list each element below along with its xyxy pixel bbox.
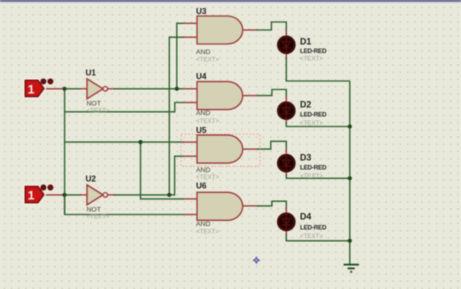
svg-text:<TEXT>: <TEXT> <box>87 214 110 221</box>
wire: branch to U5 upper input <box>65 141 198 143</box>
wire: D2 cathode to bus <box>286 119 350 127</box>
wire: branch down to U6 upper input <box>141 142 198 199</box>
ground <box>344 265 359 272</box>
and gate U3 <box>196 7 243 64</box>
svg-text:<TEXT>: <TEXT> <box>196 118 219 125</box>
junction node: D2 on bus <box>348 124 352 128</box>
wire: U6 output to D4 anode <box>242 201 286 214</box>
selection box around U5 (red dashed) <box>181 134 260 166</box>
wire: net B elbow to U6 lower input <box>65 195 198 215</box>
wire: D1 cathode down and right to ground bus <box>286 53 350 81</box>
junction node: U1 output / U3 branch <box>175 87 179 91</box>
svg-text:<TEXT>: <TEXT> <box>196 174 219 181</box>
svg-text:U6: U6 <box>196 182 207 191</box>
wire: U5 output to D3 anode <box>242 141 286 155</box>
svg-text:D2: D2 <box>300 100 311 110</box>
and gate U5 <box>196 126 243 181</box>
wire: branch up to U3 lower input <box>169 37 197 195</box>
svg-text:1: 1 <box>28 189 35 203</box>
wire: ground bus vertical <box>349 81 351 264</box>
wire: branch up to U3 upper input <box>177 23 198 89</box>
wire: U1 output to U4 upper input <box>107 88 198 90</box>
svg-text:AND: AND <box>196 49 210 56</box>
junction node: probe A / trunk <box>62 87 66 91</box>
svg-text:D1: D1 <box>300 37 311 47</box>
inverter U2 <box>86 175 110 221</box>
svg-text:U1: U1 <box>86 69 97 78</box>
svg-text:<TEXT>: <TEXT> <box>300 173 323 180</box>
origin marker (blue cross) <box>252 256 260 264</box>
logic state probe B (input 1) <box>25 185 53 203</box>
svg-text:LED-RED: LED-RED <box>300 112 327 119</box>
svg-text:LED-RED: LED-RED <box>300 165 327 172</box>
svg-text:U4: U4 <box>196 72 207 81</box>
wire: U2 output to U5 lower input <box>107 156 198 195</box>
LED D3 <box>278 153 327 180</box>
and gate U6 <box>196 182 243 236</box>
wire: probe A output to U1 input (net A horizontal) <box>42 88 88 90</box>
svg-text:AND: AND <box>196 110 210 117</box>
wire: U4 output to D2 anode <box>242 90 286 103</box>
svg-text:U5: U5 <box>196 126 207 135</box>
logic state probe A (input 1) <box>25 79 53 97</box>
LED D4 <box>278 212 327 241</box>
svg-text:NOT: NOT <box>87 100 101 107</box>
svg-text:<TEXT>: <TEXT> <box>300 56 323 63</box>
svg-text:LED-RED: LED-RED <box>300 48 327 55</box>
svg-text:D4: D4 <box>300 212 311 222</box>
svg-text:NOT: NOT <box>87 206 101 213</box>
svg-text:AND: AND <box>196 221 210 228</box>
svg-text:AND: AND <box>196 167 210 174</box>
svg-text:1: 1 <box>28 83 35 97</box>
LED D1 <box>278 36 327 63</box>
svg-text:<TEXT>: <TEXT> <box>300 233 323 240</box>
svg-text:<TEXT>: <TEXT> <box>300 120 323 127</box>
inverter U1 <box>86 69 110 115</box>
svg-text:<TEXT>: <TEXT> <box>196 229 219 236</box>
wire: net A vertical trunk down left side <box>64 89 66 215</box>
junction node: net A / U6 branch <box>138 140 142 144</box>
wire: D4 cathode to bus <box>286 230 350 241</box>
svg-text:D3: D3 <box>300 153 311 163</box>
junction node: D3 on bus <box>348 176 352 180</box>
wire: probe B output to U2 input <box>42 194 88 196</box>
junction node: U2 output / U3 branch <box>167 193 171 197</box>
wire: D3 cathode to bus <box>286 171 350 178</box>
svg-text:U3: U3 <box>196 7 207 16</box>
svg-text:<TEXT>: <TEXT> <box>196 56 219 63</box>
junction node: D4 on bus <box>348 239 352 243</box>
svg-text:<TEXT>: <TEXT> <box>87 108 110 115</box>
junction node: probe B / trunk <box>62 193 66 197</box>
wire: branch to U4 lower input <box>65 103 198 112</box>
svg-text:LED-RED: LED-RED <box>300 225 327 232</box>
and gate U4 <box>196 72 243 125</box>
LED D2 <box>278 100 327 128</box>
window top edge bar <box>0 0 461 2</box>
wire: U3 output to D1 anode <box>242 22 286 37</box>
svg-text:U2: U2 <box>86 175 97 184</box>
